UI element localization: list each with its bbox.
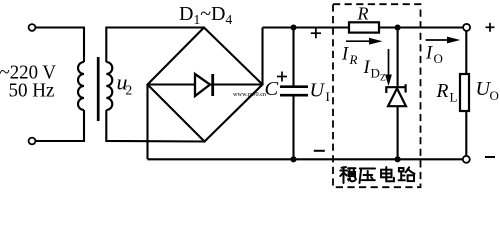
wire bridge left vertex down to bottom rail — [146, 85, 148, 160]
arrowhead IDz — [385, 75, 392, 87]
svg-text:R: R — [357, 4, 369, 24]
wire zener bottom — [397, 106, 399, 159]
wire output top branch — [465, 31, 467, 74]
arrowhead IR — [369, 38, 383, 45]
zener diode Dz triangle — [388, 88, 406, 106]
wire secondary bottom to bridge — [106, 110, 204, 142]
wire bottom-left input — [36, 110, 84, 141]
plus sign U1 — [311, 28, 321, 38]
transformer T secondary winding — [106, 62, 112, 110]
wire zener top — [397, 28, 399, 89]
svg-text:O: O — [490, 88, 499, 103]
transformer core — [97, 57, 100, 121]
top rail bridge to resistor — [263, 26, 350, 28]
bridge rectifier diamond — [148, 28, 263, 142]
hanzi WEN of 稳压电路 — [340, 167, 356, 183]
node: capacitor bottom junction — [290, 156, 296, 162]
svg-text:2: 2 — [126, 83, 133, 98]
arrow current IDz — [388, 49, 390, 78]
svg-text:50 Hz: 50 Hz — [9, 79, 55, 101]
svg-text:www.pw0.cn: www.pw0.cn — [233, 91, 267, 98]
wire bridge right vertex up to top rail — [261, 28, 263, 85]
plus sign output — [486, 23, 495, 32]
wire capacitor top — [292, 28, 294, 87]
top rail resistor to output — [379, 26, 463, 28]
svg-text:D: D — [371, 66, 380, 81]
node: zener bottom junction — [395, 156, 401, 162]
svg-text:I: I — [326, 89, 330, 104]
input terminal top-left — [29, 24, 36, 31]
minus sign U1 — [314, 150, 325, 152]
arrow current IO — [426, 39, 450, 41]
svg-text:O: O — [434, 51, 443, 66]
arrow current IR — [346, 40, 372, 42]
svg-text:L: L — [450, 90, 458, 105]
resistor R body — [349, 22, 379, 32]
wire top-left input — [36, 28, 84, 63]
hanzi LU of 稳压电路 — [399, 167, 415, 181]
capacitor C top plate — [280, 85, 308, 88]
diode D triangle — [195, 74, 210, 96]
hanzi DIAN of 稳压电路 — [381, 167, 394, 181]
svg-text:R: R — [349, 52, 358, 67]
svg-text:I: I — [425, 44, 433, 64]
wire secondary top to bridge — [106, 28, 204, 63]
svg-text:R: R — [436, 81, 449, 102]
output terminal bottom — [463, 156, 470, 163]
input terminal bottom-left — [29, 138, 36, 145]
svg-text:I: I — [341, 44, 349, 64]
hanzi YA of 稳压电路 — [360, 169, 376, 184]
wire capacitor bottom — [292, 95, 294, 159]
capacitor C bottom plate — [280, 94, 308, 97]
plus sign capacitor — [277, 72, 287, 82]
svg-text:C: C — [265, 78, 279, 100]
bottom rail — [148, 158, 463, 160]
zener diode Dz cathode bar with wings — [386, 87, 405, 93]
minus sign output — [485, 156, 495, 158]
svg-text:U: U — [310, 80, 326, 102]
dashed box (regulator) — [333, 4, 421, 187]
load resistor RL body — [460, 74, 469, 111]
node: zener top junction — [395, 24, 401, 30]
node: capacitor top junction — [290, 24, 296, 30]
svg-text:I: I — [363, 58, 371, 78]
svg-text:Z: Z — [380, 74, 386, 84]
wire output bottom branch — [465, 111, 467, 156]
svg-text:D1~D4: D1~D4 — [179, 3, 232, 27]
output terminal top — [463, 24, 470, 31]
transformer T primary winding — [78, 62, 84, 110]
arrowhead IO — [447, 37, 460, 44]
diode D inside bridge : line — [148, 83, 263, 85]
diode D cathode bar — [211, 74, 214, 96]
